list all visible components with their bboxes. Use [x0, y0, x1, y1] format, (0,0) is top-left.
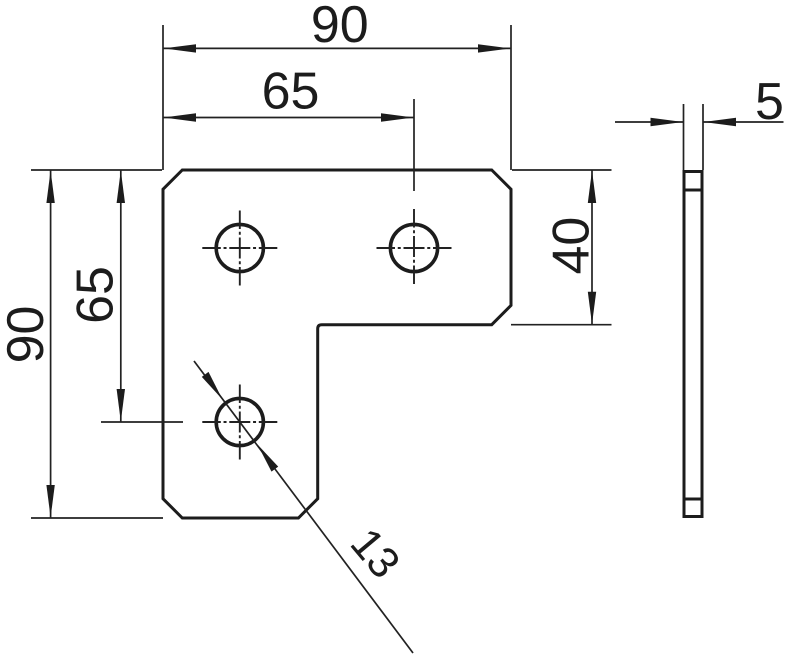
hole H2 (top-right, d13): [390, 224, 437, 271]
svg-text:90: 90: [0, 306, 55, 364]
hole H3 (bottom-left, d13): [216, 398, 263, 445]
center line H3 horizontal: [202, 421, 277, 423]
center line H3 vertical: [239, 385, 241, 460]
arrow 40 right bottom: [588, 292, 596, 325]
extension line side view right (x=703): [702, 104, 704, 170]
center line H2 vertical: [413, 209, 415, 284]
side view chamfer line bottom: [684, 498, 702, 501]
extension line side view left (x=683.5): [683, 104, 685, 170]
extension line left of top dims (x=163): [162, 25, 164, 170]
leader line d13: [194, 361, 413, 653]
arrow 65 left top: [117, 171, 125, 204]
side view plate (5mm thickness): [684, 172, 702, 517]
center line H2 horizontal: [377, 247, 452, 249]
plate outline (front view, L-shaped bracket): [163, 170, 511, 518]
extension line top of right 40 dim (y=170): [512, 169, 612, 171]
extension line bottom of left 65 dim (y=422): [101, 421, 183, 423]
dimension line 5 right part: [703, 121, 784, 123]
extension line right of top 65 dim (x=414): [413, 99, 415, 191]
extension line bottom of right 40 dim (y=324.7): [511, 324, 612, 326]
extension line right of top 90 dim (x=511): [510, 25, 512, 170]
arrow 90 left top: [46, 171, 54, 204]
arrow 5 right (points left): [704, 118, 737, 126]
dimension line 40 right: [591, 170, 593, 325]
dimension line 5 left part: [615, 121, 684, 123]
extension line top of left dims (y=170): [31, 169, 162, 171]
dimension line 65 left: [120, 170, 122, 422]
hole H1 (top-left, d13): [216, 224, 263, 271]
dimension line 65 top: [163, 117, 414, 119]
svg-text:5: 5: [755, 73, 784, 131]
arrow 65 top right: [381, 113, 414, 121]
dimension line 90 top: [163, 47, 511, 49]
extension line bottom of left 90 dim (y=518): [31, 517, 163, 519]
arrow d13 upper (points to hole edge): [202, 372, 223, 400]
svg-text:90: 90: [311, 0, 369, 54]
center line H1 horizontal: [202, 247, 277, 249]
center line H1 vertical: [239, 211, 241, 286]
arrow 40 right top: [588, 171, 596, 204]
arrow d13 lower (points to hole edge): [258, 445, 279, 472]
side view chamfer line top: [684, 189, 702, 192]
arrow 90 top left: [164, 44, 197, 52]
arrow 90 top right: [478, 44, 511, 52]
svg-text:65: 65: [262, 63, 320, 121]
arrow 65 top left: [164, 113, 197, 121]
arrow 5 left (points right): [651, 118, 684, 126]
svg-text:40: 40: [542, 217, 600, 275]
svg-text:65: 65: [66, 266, 124, 324]
dimension line 90 left: [50, 170, 52, 518]
arrow 90 left bottom: [46, 485, 54, 518]
arrow 65 left bottom: [117, 389, 125, 422]
